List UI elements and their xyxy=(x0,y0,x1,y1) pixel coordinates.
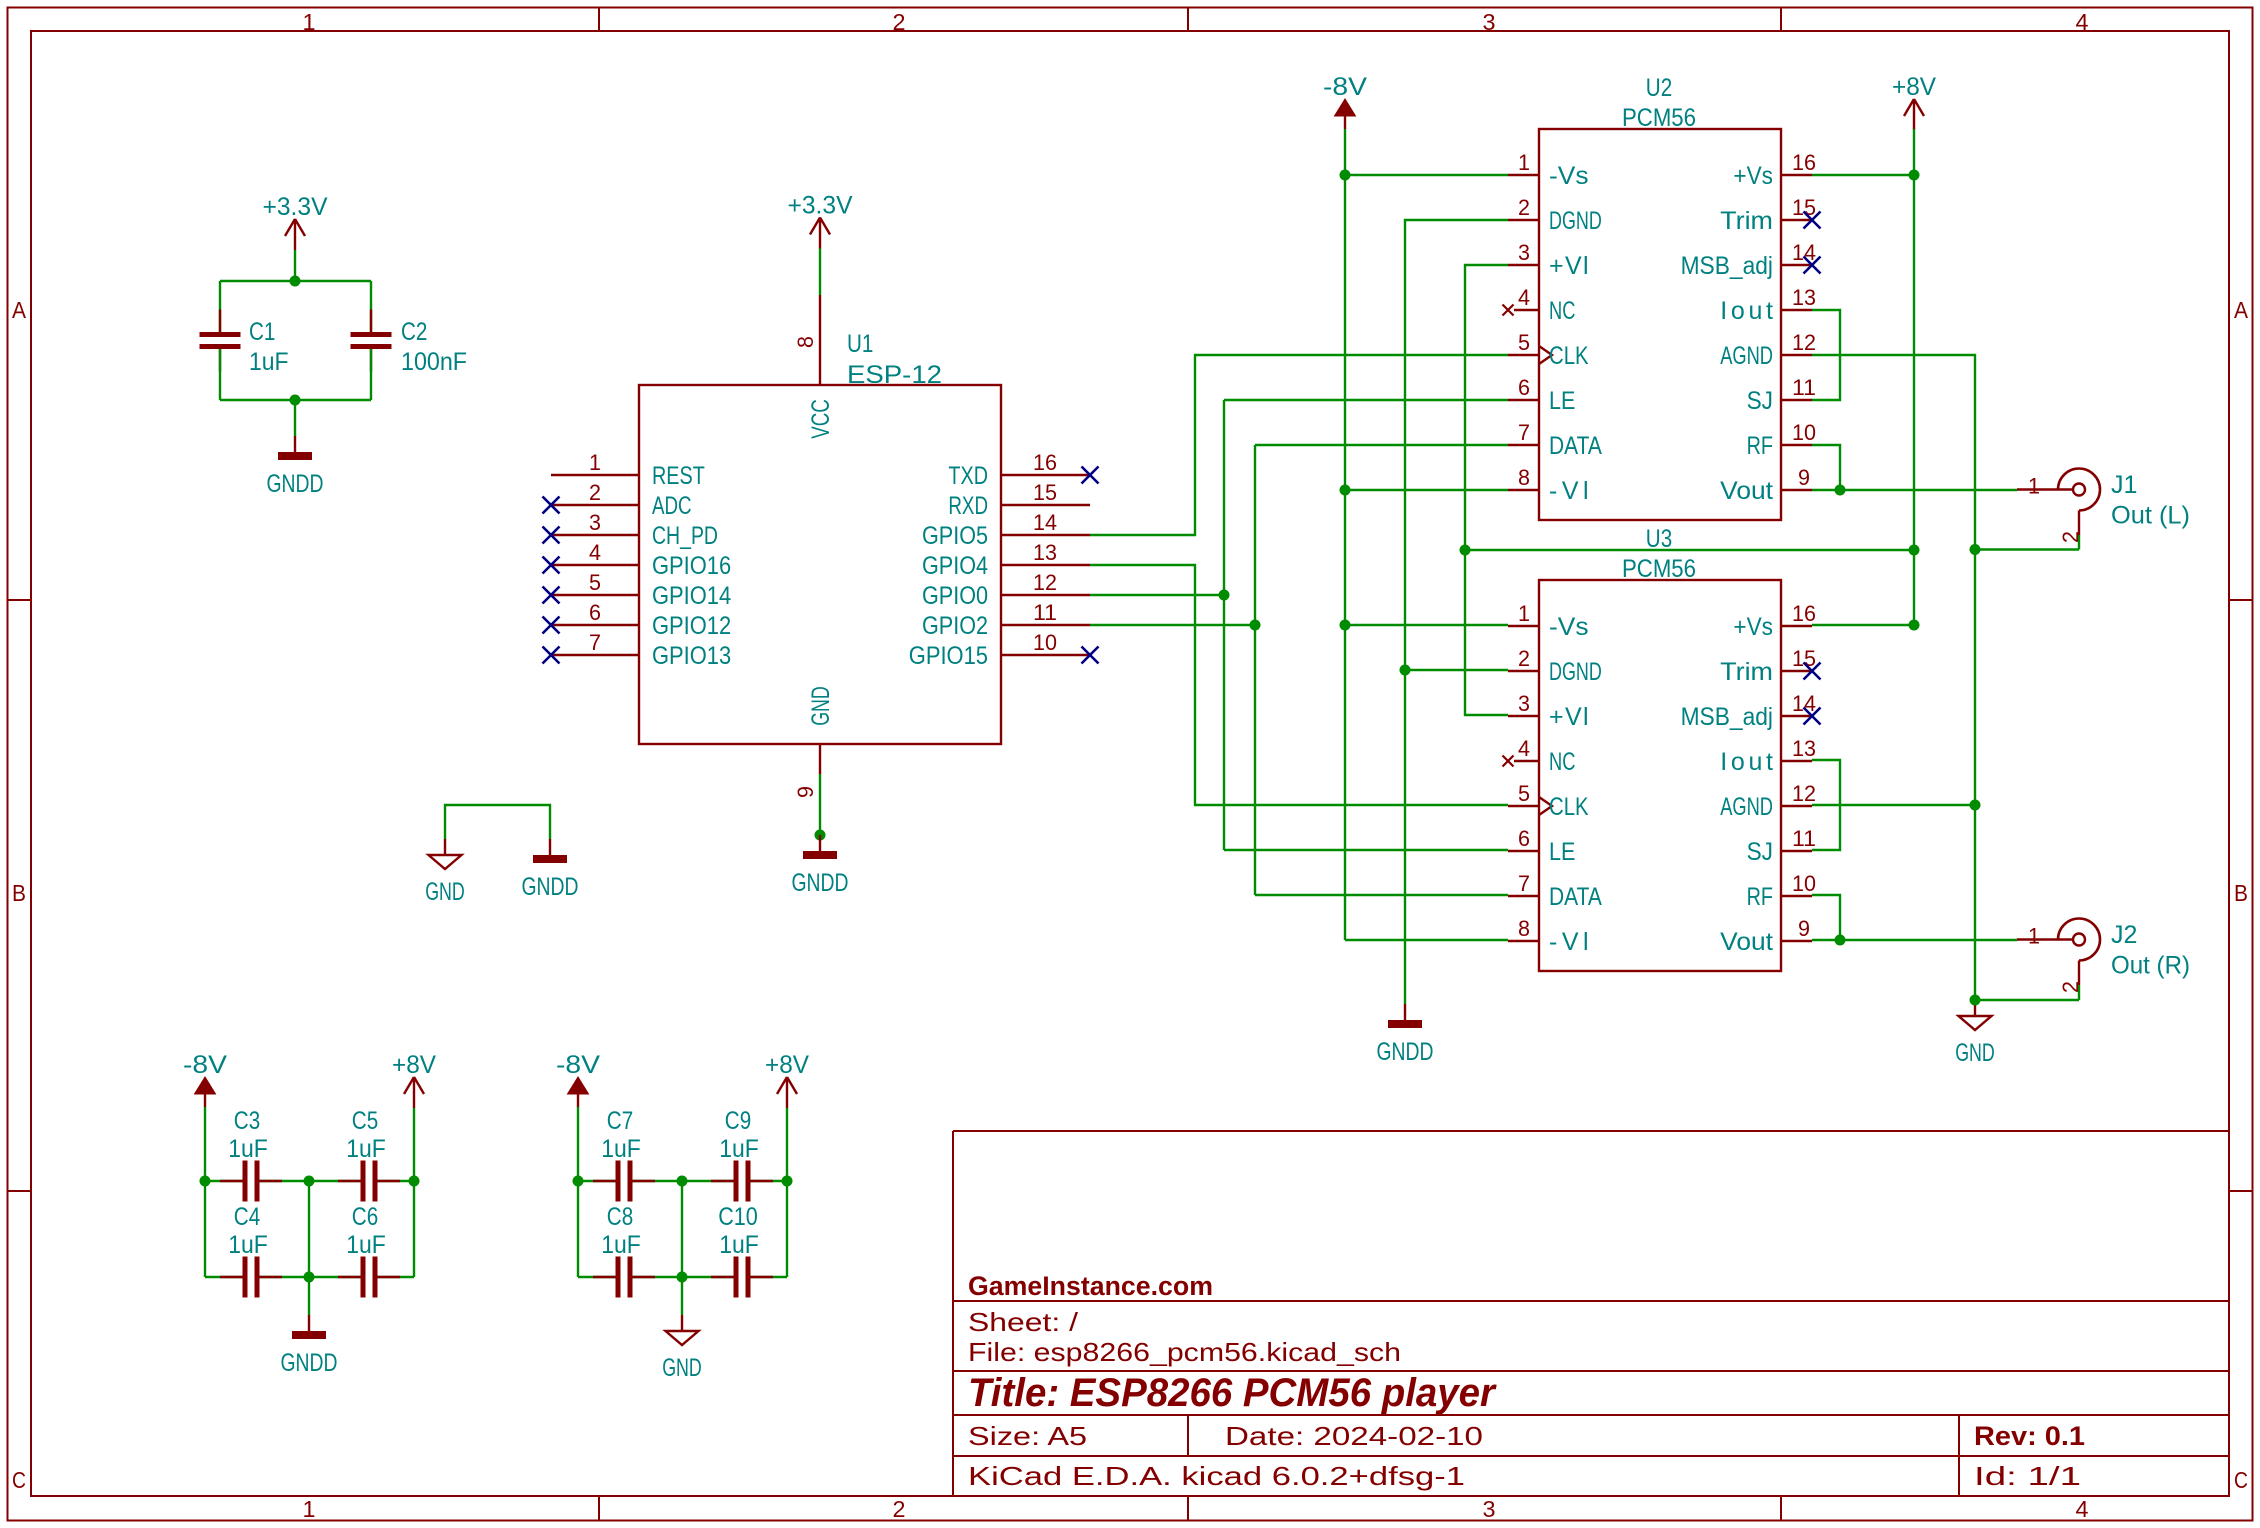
U2 pin 8 -Vl xyxy=(1508,465,1589,505)
svg-text:1: 1 xyxy=(1518,601,1530,626)
svg-text:GPIO4: GPIO4 xyxy=(922,552,988,580)
svg-text:U1: U1 xyxy=(847,330,873,358)
wire +8V rail xyxy=(1812,129,1914,625)
junction bank node (309,1181) xyxy=(304,1176,315,1187)
junction +8V at U2 +Vs xyxy=(1909,170,1920,181)
svg-text:Trim: Trim xyxy=(1720,658,1773,686)
svg-text:4: 4 xyxy=(2076,1496,2089,1522)
wire U3 RF to Vout xyxy=(1812,895,1840,940)
U3 pin 6 LE xyxy=(1508,826,1575,866)
svg-text:KiCad E.D.A. kicad 6.0.2+dfsg: KiCad E.D.A. kicad 6.0.2+dfsg-1 xyxy=(968,1461,1465,1491)
junction bank node (787,1181) xyxy=(782,1176,793,1187)
svg-text:Date: 2024-02-10: Date: 2024-02-10 xyxy=(1225,1421,1483,1451)
U3 pin 7 DATA xyxy=(1508,871,1602,911)
U1 pin 3 CH_PD xyxy=(543,510,719,550)
svg-text:A: A xyxy=(2234,297,2249,323)
svg-text:NC: NC xyxy=(1549,297,1575,325)
svg-text:2: 2 xyxy=(893,9,906,35)
svg-text:TXD: TXD xyxy=(948,462,988,490)
ground GNDD (below U3) xyxy=(1377,1004,1434,1066)
ground GND (bridge) xyxy=(425,839,465,906)
wire GPIO0 to U2 LE and U3 LE xyxy=(1090,400,1508,850)
capacitor C8 1uF xyxy=(593,1203,655,1298)
U1 pin 7 GPIO13 xyxy=(543,630,732,670)
U1 pin 8 VCC xyxy=(793,295,835,439)
svg-text:J2: J2 xyxy=(2111,921,2137,949)
svg-text:1: 1 xyxy=(589,450,601,475)
wire GPIO5 to U2 CLK xyxy=(1090,355,1508,535)
svg-text:6: 6 xyxy=(1518,375,1530,400)
junction +Vl tap xyxy=(1460,545,1471,556)
svg-text:1: 1 xyxy=(2028,474,2040,499)
U3 pin 14 MSB_adj xyxy=(1681,691,1821,731)
wire U2 Vout to J1 xyxy=(1812,489,2017,491)
svg-text:3: 3 xyxy=(1518,691,1530,716)
svg-text:6: 6 xyxy=(589,600,601,625)
U1 pin 1 REST xyxy=(551,450,705,490)
U1 pin 13 GPIO4 xyxy=(922,540,1090,580)
connector J1 Out (L) xyxy=(2017,469,2190,544)
svg-text:16: 16 xyxy=(1792,601,1816,626)
svg-text:C4: C4 xyxy=(234,1203,260,1231)
junction bank node (578,1181) xyxy=(573,1176,584,1187)
svg-text:8: 8 xyxy=(793,336,818,348)
svg-text:15: 15 xyxy=(1792,195,1816,220)
svg-text:Out (R): Out (R) xyxy=(2111,952,2190,980)
junction -8V at U3 -Vs xyxy=(1340,620,1351,631)
svg-text:CLK: CLK xyxy=(1549,342,1589,370)
ground GNDD (U1) xyxy=(792,835,849,897)
svg-text:DATA: DATA xyxy=(1549,883,1602,911)
U3 pin 11 SJ xyxy=(1747,826,1816,866)
svg-text:1uF: 1uF xyxy=(346,1135,386,1163)
wire DGND net xyxy=(1405,220,1508,1004)
U3 pin 12 AGND xyxy=(1720,781,1816,821)
ground GNDD (C1 C2) xyxy=(267,436,324,498)
U3 pin 3 +Vl xyxy=(1508,691,1589,731)
power symbol +8V (top) xyxy=(1892,73,1936,130)
svg-text:15: 15 xyxy=(1033,480,1057,505)
svg-text:+8V: +8V xyxy=(1892,73,1936,101)
U3 pin 4 NC xyxy=(1503,736,1576,776)
svg-text:+Vs: +Vs xyxy=(1733,613,1773,641)
svg-text:14: 14 xyxy=(1033,510,1057,535)
capacitor C3 1uF xyxy=(220,1107,282,1202)
svg-text:5: 5 xyxy=(589,570,601,595)
svg-text:3: 3 xyxy=(1518,240,1530,265)
svg-text:12: 12 xyxy=(1792,330,1816,355)
svg-text:C1: C1 xyxy=(249,318,275,346)
wire bank rails xyxy=(578,1107,787,1315)
svg-text:-Vs: -Vs xyxy=(1549,162,1589,190)
svg-text:1: 1 xyxy=(2028,924,2040,949)
U1 pin 15 RXD xyxy=(948,480,1090,520)
wire -8V rail xyxy=(1345,129,1508,940)
U2 pin 10 RF xyxy=(1747,420,1816,460)
capacitor C6 1uF xyxy=(338,1203,400,1298)
svg-text:Title: ESP8266 PCM56 player: Title: ESP8266 PCM56 player xyxy=(968,1371,1497,1415)
svg-text:C5: C5 xyxy=(352,1107,378,1135)
svg-text:GND: GND xyxy=(662,1354,702,1382)
svg-text:Iout: Iout xyxy=(1720,297,1773,325)
svg-text:4: 4 xyxy=(1518,285,1530,310)
U3 pin 13 Iout xyxy=(1720,736,1816,776)
svg-text:10: 10 xyxy=(1792,871,1816,896)
svg-text:1uF: 1uF xyxy=(249,348,289,376)
wire GPIO4 to U3 CLK xyxy=(1090,565,1508,805)
junction +8V at U3 +Vs xyxy=(1909,620,1920,631)
svg-text:AGND: AGND xyxy=(1720,342,1773,370)
svg-text:2: 2 xyxy=(1518,195,1530,220)
svg-text:-Vl: -Vl xyxy=(1549,928,1589,956)
svg-text:AGND: AGND xyxy=(1720,793,1773,821)
U3 pin 1 -Vs xyxy=(1508,601,1589,641)
svg-text:J1: J1 xyxy=(2111,471,2137,499)
svg-text:2: 2 xyxy=(2058,531,2083,543)
svg-text:5: 5 xyxy=(1518,781,1530,806)
power symbol +8V (bank) xyxy=(392,1051,436,1108)
svg-text:ESP-12: ESP-12 xyxy=(847,361,942,389)
svg-text:C10: C10 xyxy=(718,1203,758,1231)
junction bank node (682,1277) xyxy=(677,1272,688,1283)
wire GND-GNDD bridge xyxy=(445,805,550,839)
svg-text:CLK: CLK xyxy=(1549,793,1589,821)
svg-text:1uF: 1uF xyxy=(601,1231,641,1259)
svg-text:GPIO12: GPIO12 xyxy=(652,612,731,640)
wire U2 Iout to SJ xyxy=(1812,310,1840,400)
svg-text:LE: LE xyxy=(1549,387,1575,415)
power symbol +3.3V (U1 VCC) xyxy=(788,192,853,249)
svg-text:GameInstance.com: GameInstance.com xyxy=(968,1271,1213,1301)
svg-text:C6: C6 xyxy=(352,1203,378,1231)
junction AGND at J2 pin2 xyxy=(1970,995,1981,1006)
svg-text:1: 1 xyxy=(303,9,316,35)
U2 pin 11 SJ xyxy=(1747,375,1816,415)
wire U2 RF to Vout xyxy=(1812,445,1840,490)
svg-text:1uF: 1uF xyxy=(346,1231,386,1259)
junction DGND at U3 xyxy=(1400,665,1411,676)
wire +Vl net xyxy=(1465,265,1914,715)
junction AGND at U3 xyxy=(1970,800,1981,811)
svg-text:GND: GND xyxy=(425,878,465,906)
svg-text:RF: RF xyxy=(1747,883,1773,911)
U2 pin 16 +Vs xyxy=(1733,150,1816,190)
junction bank node (414,1181) xyxy=(409,1176,420,1187)
svg-text:13: 13 xyxy=(1033,540,1057,565)
wire GNDD net from C1 C2 xyxy=(220,349,371,436)
svg-text:GNDD: GNDD xyxy=(1377,1038,1434,1066)
svg-text:-8V: -8V xyxy=(1323,73,1367,101)
wire U3 Iout to SJ xyxy=(1812,760,1840,850)
U2 pin 14 MSB_adj xyxy=(1681,240,1821,280)
wire bank rails xyxy=(205,1107,414,1315)
svg-text:14: 14 xyxy=(1792,240,1816,265)
svg-text:13: 13 xyxy=(1792,285,1816,310)
svg-text:GNDD: GNDD xyxy=(522,873,579,901)
power symbol +3.3V (C1 C2) xyxy=(263,193,328,250)
svg-text:3: 3 xyxy=(1483,9,1496,35)
svg-text:Id: 1/1: Id: 1/1 xyxy=(1974,1461,2081,1491)
svg-text:14: 14 xyxy=(1792,691,1816,716)
svg-text:GNDD: GNDD xyxy=(267,470,324,498)
U3 pin 16 +Vs xyxy=(1733,601,1816,641)
svg-text:Out (L): Out (L) xyxy=(2111,502,2190,530)
svg-text:9: 9 xyxy=(1798,916,1810,941)
U2 pin 6 LE xyxy=(1508,375,1575,415)
svg-text:2: 2 xyxy=(589,480,601,505)
U3 pin 2 DGND xyxy=(1508,646,1602,686)
svg-text:Vout: Vout xyxy=(1720,928,1773,956)
svg-text:11: 11 xyxy=(1792,826,1816,851)
U1 pin 2 ADC xyxy=(543,480,692,520)
svg-text:Size: A5: Size: A5 xyxy=(968,1421,1087,1451)
svg-text:RF: RF xyxy=(1747,432,1773,460)
svg-text:U2: U2 xyxy=(1646,74,1672,102)
svg-text:C9: C9 xyxy=(725,1107,751,1135)
svg-text:10: 10 xyxy=(1033,630,1057,655)
svg-text:GND: GND xyxy=(1955,1039,1995,1067)
U2 pin 7 DATA xyxy=(1508,420,1602,460)
svg-text:11: 11 xyxy=(1792,375,1816,400)
svg-text:C3: C3 xyxy=(234,1107,260,1135)
svg-text:12: 12 xyxy=(1033,570,1057,595)
svg-text:2: 2 xyxy=(2058,981,2083,993)
svg-text:7: 7 xyxy=(1518,871,1530,896)
svg-text:1uF: 1uF xyxy=(228,1135,268,1163)
ground GNDD (bridge) xyxy=(522,839,579,901)
svg-text:MSB_adj: MSB_adj xyxy=(1681,703,1773,731)
capacitor C5 1uF xyxy=(338,1107,400,1202)
junction U3 Vout node xyxy=(1835,935,1846,946)
ground GND (bank) xyxy=(662,1315,702,1382)
wire U3 Vout to J2 xyxy=(1812,939,2017,941)
svg-text:GPIO5: GPIO5 xyxy=(922,522,988,550)
svg-text:+3.3V: +3.3V xyxy=(788,192,853,220)
U1 pin 4 GPIO16 xyxy=(543,540,732,580)
svg-text:DATA: DATA xyxy=(1549,432,1602,460)
svg-text:1uF: 1uF xyxy=(719,1135,759,1163)
svg-text:+8V: +8V xyxy=(392,1051,436,1079)
power symbol -8V (bank) xyxy=(556,1051,600,1107)
svg-text:Vout: Vout xyxy=(1720,477,1773,505)
IC U2 PCM56 body xyxy=(1539,74,1781,520)
svg-text:RXD: RXD xyxy=(948,492,988,520)
svg-text:C7: C7 xyxy=(607,1107,633,1135)
svg-text:15: 15 xyxy=(1792,646,1816,671)
U1 pin 14 GPIO5 xyxy=(922,510,1090,550)
svg-text:Sheet: /: Sheet: / xyxy=(968,1307,1079,1337)
svg-text:C: C xyxy=(12,1467,26,1493)
junction -8V at U2 -Vs xyxy=(1340,170,1351,181)
svg-text:PCM56: PCM56 xyxy=(1622,104,1696,132)
svg-text:6: 6 xyxy=(1518,826,1530,851)
svg-text:-8V: -8V xyxy=(183,1051,227,1079)
svg-text:GPIO14: GPIO14 xyxy=(652,582,731,610)
U1 pin 9 GND xyxy=(793,686,835,798)
junction +8V tap xyxy=(1909,545,1920,556)
U3 pin 8 -Vl xyxy=(1508,916,1589,956)
svg-text:DGND: DGND xyxy=(1549,207,1602,235)
svg-text:-Vs: -Vs xyxy=(1549,613,1589,641)
wire AGND net xyxy=(1812,355,2079,1000)
junction C1-C2 top node xyxy=(290,276,301,287)
U1 pin 5 GPIO14 xyxy=(543,570,732,610)
svg-text:+Vs: +Vs xyxy=(1733,162,1773,190)
wire +3.3V net to C1 C2 xyxy=(220,250,371,332)
svg-text:GNDD: GNDD xyxy=(792,869,849,897)
svg-text:1uF: 1uF xyxy=(228,1231,268,1259)
U2 pin 1 -Vs xyxy=(1508,150,1589,190)
U1 pin 12 GPIO0 xyxy=(922,570,1090,610)
svg-text:GPIO15: GPIO15 xyxy=(909,642,988,670)
capacitor C7 1uF xyxy=(593,1107,655,1202)
svg-text:8: 8 xyxy=(1518,465,1530,490)
junction GPIO0 tee xyxy=(1219,590,1230,601)
svg-text:4: 4 xyxy=(589,540,601,565)
svg-text:C8: C8 xyxy=(607,1203,633,1231)
svg-text:LE: LE xyxy=(1549,838,1575,866)
capacitor C1 1uF xyxy=(200,310,289,377)
svg-text:9: 9 xyxy=(793,786,818,798)
U2 pin 15 Trim xyxy=(1720,195,1820,235)
capacitor C2 100nF xyxy=(351,310,468,377)
svg-text:1: 1 xyxy=(1518,150,1530,175)
capacitor C9 1uF xyxy=(711,1107,773,1202)
junction C1-C2 bottom node xyxy=(290,395,301,406)
U3 pin 5 CLK xyxy=(1508,781,1589,821)
svg-text:DGND: DGND xyxy=(1549,658,1602,686)
svg-text:NC: NC xyxy=(1549,748,1575,776)
U2 pin 5 CLK xyxy=(1508,330,1589,370)
junction AGND at J1 pin2 xyxy=(1970,544,1981,555)
svg-text:GND: GND xyxy=(807,686,835,726)
svg-text:File: esp8266_pcm56.kicad_sch: File: esp8266_pcm56.kicad_sch xyxy=(968,1337,1401,1367)
U2 pin 3 +Vl xyxy=(1508,240,1589,280)
junction U1 GND node xyxy=(815,830,826,841)
connector J2 Out (R) xyxy=(2017,919,2190,994)
junction bank node (309,1277) xyxy=(304,1272,315,1283)
svg-text:-Vl: -Vl xyxy=(1549,477,1589,505)
svg-text:16: 16 xyxy=(1033,450,1057,475)
svg-text:1: 1 xyxy=(303,1496,316,1522)
svg-text:10: 10 xyxy=(1792,420,1816,445)
title block xyxy=(953,1131,2229,1496)
svg-text:100nF: 100nF xyxy=(401,348,467,376)
U3 pin 10 RF xyxy=(1747,871,1816,911)
capacitor C4 1uF xyxy=(220,1203,282,1298)
ground GND (J outputs) xyxy=(1955,1000,1995,1067)
svg-text:A: A xyxy=(12,297,27,323)
power symbol +8V (bank) xyxy=(765,1051,809,1108)
svg-text:C2: C2 xyxy=(401,318,427,346)
svg-text:Iout: Iout xyxy=(1720,748,1773,776)
power symbol -8V (top) xyxy=(1323,73,1367,129)
svg-text:CH_PD: CH_PD xyxy=(652,522,718,550)
svg-text:Trim: Trim xyxy=(1720,207,1773,235)
U2 pin 12 AGND xyxy=(1720,330,1816,370)
svg-text:4: 4 xyxy=(2076,9,2089,35)
svg-text:11: 11 xyxy=(1033,600,1057,625)
svg-text:16: 16 xyxy=(1792,150,1816,175)
svg-text:1uF: 1uF xyxy=(719,1231,759,1259)
ground GNDD (bank) xyxy=(281,1315,338,1377)
svg-text:SJ: SJ xyxy=(1747,387,1773,415)
svg-text:B: B xyxy=(2234,880,2248,906)
svg-text:2: 2 xyxy=(1518,646,1530,671)
svg-text:REST: REST xyxy=(652,462,705,490)
svg-text:4: 4 xyxy=(1518,736,1530,761)
junction bank node (682,1181) xyxy=(677,1176,688,1187)
U1 pin 10 GPIO15 xyxy=(909,630,1099,670)
svg-text:3: 3 xyxy=(1483,1496,1496,1522)
svg-text:B: B xyxy=(12,880,26,906)
junction U2 Vout node xyxy=(1835,485,1846,496)
svg-text:8: 8 xyxy=(1518,916,1530,941)
svg-text:ADC: ADC xyxy=(652,492,692,520)
svg-text:VCC: VCC xyxy=(807,399,835,439)
wire GPIO2 to U2 DATA and U3 DATA xyxy=(1090,445,1508,895)
svg-text:9: 9 xyxy=(1798,465,1810,490)
svg-text:+Vl: +Vl xyxy=(1549,252,1589,280)
svg-text:12: 12 xyxy=(1792,781,1816,806)
svg-text:2: 2 xyxy=(893,1496,906,1522)
svg-text:-8V: -8V xyxy=(556,1051,600,1079)
IC U3 PCM56 body xyxy=(1539,525,1781,971)
svg-text:13: 13 xyxy=(1792,736,1816,761)
svg-text:GPIO13: GPIO13 xyxy=(652,642,731,670)
U3 pin 9 Vout xyxy=(1720,916,1812,956)
U1 pin 11 GPIO2 xyxy=(922,600,1090,640)
U2 pin 2 DGND xyxy=(1508,195,1602,235)
U3 pin 15 Trim xyxy=(1720,646,1820,686)
svg-text:GNDD: GNDD xyxy=(281,1349,338,1377)
U1 pin 16 TXD xyxy=(948,450,1098,490)
svg-text:1uF: 1uF xyxy=(601,1135,641,1163)
capacitor C10 1uF xyxy=(711,1203,773,1298)
U2 pin 13 Iout xyxy=(1720,285,1816,325)
wire U1 GND to GNDD xyxy=(819,774,821,835)
svg-text:7: 7 xyxy=(1518,420,1530,445)
svg-text:Rev: 0.1: Rev: 0.1 xyxy=(1974,1421,2085,1451)
junction bank node (205,1181) xyxy=(200,1176,211,1187)
svg-text:3: 3 xyxy=(589,510,601,535)
svg-text:PCM56: PCM56 xyxy=(1622,555,1696,583)
svg-text:C: C xyxy=(2234,1467,2248,1493)
junction GPIO2 tee xyxy=(1250,620,1261,631)
U2 pin 9 Vout xyxy=(1720,465,1812,505)
IC U1 ESP-12 body xyxy=(639,330,1001,744)
U2 pin 4 NC xyxy=(1503,285,1576,325)
svg-text:GPIO16: GPIO16 xyxy=(652,552,731,580)
svg-text:+8V: +8V xyxy=(765,1051,809,1079)
svg-text:+3.3V: +3.3V xyxy=(263,193,328,221)
svg-text:7: 7 xyxy=(589,630,601,655)
svg-text:GPIO0: GPIO0 xyxy=(922,582,988,610)
svg-text:SJ: SJ xyxy=(1747,838,1773,866)
wire +3.3V to U1 VCC xyxy=(819,249,821,296)
power symbol -8V (bank) xyxy=(183,1051,227,1107)
svg-text:+Vl: +Vl xyxy=(1549,703,1589,731)
U1 pin 6 GPIO12 xyxy=(543,600,732,640)
svg-text:GPIO2: GPIO2 xyxy=(922,612,988,640)
svg-text:MSB_adj: MSB_adj xyxy=(1681,252,1773,280)
junction -8V at U2 -Vl xyxy=(1340,485,1351,496)
svg-text:5: 5 xyxy=(1518,330,1530,355)
